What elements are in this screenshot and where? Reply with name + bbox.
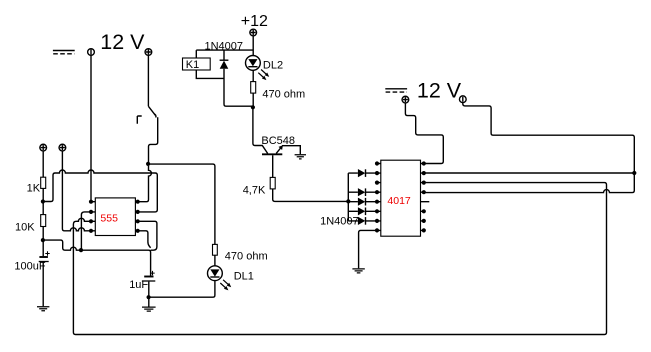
svg-text:1uF: 1uF — [129, 279, 148, 291]
svg-text:1K: 1K — [27, 182, 41, 194]
svg-text:10K: 10K — [15, 222, 35, 234]
svg-text:12 V: 12 V — [100, 30, 145, 54]
svg-text:DL1: DL1 — [234, 270, 254, 282]
svg-text:470 ohm: 470 ohm — [225, 251, 268, 263]
svg-text:100uF: 100uF — [14, 260, 45, 272]
svg-text:BC548: BC548 — [261, 135, 295, 147]
svg-text:+12: +12 — [241, 13, 268, 30]
svg-text:1N4007: 1N4007 — [205, 40, 244, 52]
svg-text:4017: 4017 — [387, 195, 411, 207]
svg-text:12 V: 12 V — [417, 79, 462, 103]
svg-text:1N4007: 1N4007 — [320, 216, 359, 228]
svg-text:K1: K1 — [186, 59, 199, 71]
svg-text:555: 555 — [100, 213, 118, 225]
svg-text:470 ohm: 470 ohm — [262, 88, 305, 100]
svg-text:4,7K: 4,7K — [243, 184, 266, 196]
svg-text:DL2: DL2 — [263, 59, 283, 71]
